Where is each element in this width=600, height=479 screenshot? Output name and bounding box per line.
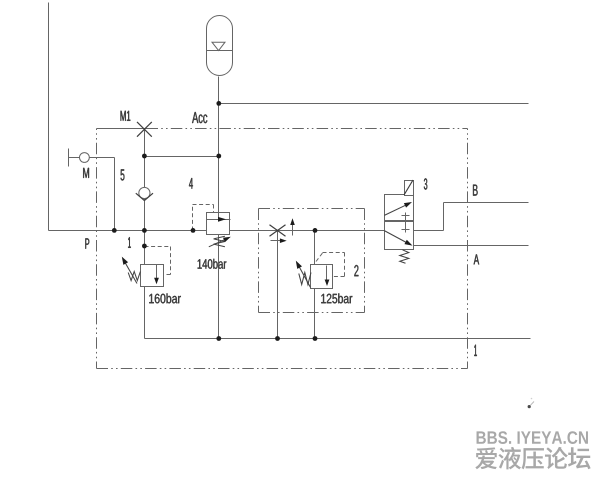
valve 4 adjustment arrow	[209, 237, 231, 247]
pilot line of relief valve (dashed)	[145, 247, 171, 275]
wire: valve 3 to port B step	[413, 230, 444, 232]
label 4	[189, 178, 193, 189]
relief 160bar adjustment arrow	[122, 257, 137, 284]
valve 3 top position flow arrow	[384, 202, 412, 215]
wire: throttle outlet drop	[277, 231, 279, 339]
wire: M1 / check valve vertical line	[144, 129, 146, 339]
valve 3 bottom position flow arrow	[384, 231, 412, 246]
valve 3 bottom blocked port T	[402, 222, 410, 233]
node: pilot tap on P line	[191, 228, 196, 233]
label M1	[121, 111, 131, 121]
valve 3 return spring	[400, 250, 409, 263]
wire: branch between check-valve line and accumulator line	[145, 156, 219, 158]
check valve	[136, 187, 153, 200]
node: junction acc line / mid branch	[216, 154, 221, 159]
label A	[474, 254, 479, 264]
wire: accumulator vertical line	[218, 77, 220, 339]
pressure gauge connection M	[69, 149, 115, 231]
small stray cursor mark	[528, 398, 534, 409]
manifold enclosure (dash-dot boundary)	[97, 129, 468, 369]
label 160bar	[149, 293, 181, 303]
wire: tank return line	[145, 338, 531, 340]
label 2	[354, 265, 358, 276]
pilot line of valve 4 (dashed)	[193, 205, 214, 231]
pilot line of relief valve 2 (dashed)	[316, 253, 345, 277]
relief valve body 160bar	[141, 265, 164, 287]
wire: relief valve 2 drop	[314, 231, 316, 339]
directional valve U3 body	[385, 195, 414, 250]
label 1 (tank line)	[474, 345, 476, 356]
node: relief 2 tap on P	[313, 228, 318, 233]
label 125bar	[321, 293, 352, 303]
node: throttle outlet on return	[275, 336, 280, 341]
throttle/orifice	[270, 225, 286, 236]
node: check line on P	[142, 228, 147, 233]
shut-off/test point M1 (closed cross)	[137, 122, 152, 137]
relief valve body 125bar (item 2)	[311, 265, 333, 289]
wire: main pressure line P	[49, 230, 385, 232]
label P	[85, 238, 89, 248]
node: accumulator branch junction	[216, 101, 221, 106]
node: valve4 outlet on return	[216, 336, 221, 341]
valve 3 top blocked port T	[402, 213, 410, 222]
node: pilot tap above relief valve	[142, 244, 147, 249]
node: gauge line on P	[112, 228, 117, 233]
node: relief2 outlet on return	[313, 336, 318, 341]
label 5	[121, 169, 125, 180]
relief 125bar adjustment arrow	[296, 261, 311, 288]
inner enclosure around throttle and relief valve 2	[259, 209, 365, 313]
wire: port A line	[413, 245, 529, 247]
throttle up arrow	[290, 218, 295, 235]
label B	[473, 185, 478, 196]
label 3	[424, 178, 427, 189]
valve 4 spring	[214, 236, 225, 246]
valve U4 body (140bar)	[207, 213, 231, 235]
wire: accumulator top branch to system	[219, 103, 529, 105]
label M	[83, 168, 89, 178]
relief 125bar spring	[299, 273, 311, 285]
label 1 (on P line)	[128, 237, 131, 248]
wire: left supply vertical line	[48, 3, 50, 231]
valve 3 solenoid	[404, 180, 414, 196]
accumulator Acc	[207, 16, 233, 76]
watermark Chinese characters (as paths)	[475, 447, 590, 470]
label Acc	[192, 112, 207, 123]
label 140bar	[198, 259, 227, 269]
throttle right arrow	[271, 238, 287, 243]
watermark BBS.IYEYA.CN	[477, 431, 588, 444]
relief 160bar spring	[128, 272, 140, 281]
node: junction check line / mid branch	[142, 154, 147, 159]
